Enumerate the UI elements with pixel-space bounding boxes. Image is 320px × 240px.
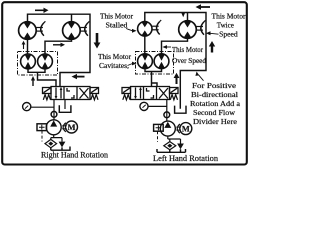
svg-text:This Motor: This Motor	[100, 12, 133, 21]
shaft of motor M1	[36, 21, 45, 36]
svg-text:This Motor: This Motor	[212, 12, 246, 21]
small down tick on wire	[181, 13, 185, 17]
shaft of motor M2	[80, 21, 89, 36]
pump P1	[46, 120, 61, 135]
wire M2 top stub	[71, 14, 73, 22]
flow divider FD2 right element	[154, 54, 169, 69]
wire M1 bottom to divider	[27, 39, 29, 54]
leader to M4 wire	[210, 32, 219, 35]
svg-text:Second Flow: Second Flow	[193, 108, 236, 117]
svg-text:Bi-directional: Bi-directional	[191, 90, 238, 99]
electric motor E1	[66, 121, 78, 133]
svg-text:Rotation Add a: Rotation Add a	[190, 99, 241, 108]
bold down arrow beside x90 wire	[94, 33, 101, 49]
label: This Motor Cavitates	[98, 52, 131, 70]
junction ball B2	[164, 112, 170, 118]
svg-text:Twice: Twice	[217, 21, 235, 30]
leader up to junction	[199, 75, 204, 81]
wire FD1 bottom bus	[28, 69, 45, 73]
shaft pump P2 to motor E2	[177, 124, 180, 133]
svg-text:Right Hand Rotation: Right Hand Rotation	[41, 151, 108, 160]
flow divider FD2 left element	[138, 54, 153, 69]
flow divider FD1 right element	[38, 54, 53, 69]
wire M4 top stub	[187, 13, 189, 22]
pump P2	[160, 121, 175, 136]
leader to M3	[126, 29, 133, 31]
valve V1 right solenoid	[90, 88, 99, 94]
valve V1 left solenoid	[43, 88, 52, 94]
svg-text:Cavitates,: Cavitates,	[99, 61, 129, 70]
valve V2 right solenoid	[170, 88, 179, 94]
bold up arrow right of M4	[209, 41, 215, 53]
heat exchanger H2	[154, 124, 164, 131]
svg-text:Over Speed: Over Speed	[172, 56, 206, 65]
label: This Motor Stalled	[100, 12, 133, 30]
valve V2 crossed arrows	[159, 88, 168, 99]
valve V2 center blocked ports	[147, 88, 154, 98]
wire FD1 supply to valve V1	[38, 72, 57, 86]
wire gauge G2 to riser	[148, 105, 167, 107]
wire M3 bottom to FD2 left circle	[144, 36, 146, 54]
svg-text:This Motor: This Motor	[98, 52, 131, 61]
gauge G2	[140, 102, 148, 110]
label: This Motor Over Speed	[172, 45, 206, 65]
up arrow below FD1	[31, 76, 35, 86]
wire middle top bus M3-M4	[145, 13, 206, 109]
flow divider FD2 enclosure (dash-dot)	[136, 52, 174, 75]
flow arrow right on top bus	[35, 8, 49, 13]
label: For Positive block	[190, 81, 241, 126]
valve V2 right spring	[170, 95, 177, 100]
filter F2	[164, 142, 176, 150]
wire top bus left group	[28, 14, 91, 86]
wire gauge G1 to riser	[30, 106, 54, 108]
valve V1 right spring	[91, 95, 98, 100]
valve V2 left solenoid	[122, 88, 131, 94]
up arrow right side near x180 wire	[174, 73, 180, 84]
small up arrow beside M1 bottom wire	[22, 41, 26, 49]
valve V1 left spring	[43, 95, 50, 100]
bold left arrow top right	[196, 4, 211, 9]
valve V1 center blocked ports	[67, 88, 74, 98]
wire FD2 bottom bus	[145, 69, 162, 72]
valve V2 body	[122, 87, 178, 100]
valve V1 crossed arrows	[80, 88, 89, 99]
wire pump P1 suction	[51, 135, 62, 142]
gauge G1	[23, 103, 31, 111]
tank T1	[59, 105, 71, 112]
label: This Motor Twice Speed	[212, 12, 246, 39]
bold left arrow on return line	[72, 74, 85, 79]
valve V2 envelope arrows	[135, 88, 137, 99]
tank bus under P2	[157, 149, 186, 152]
valve V1 body	[43, 87, 99, 100]
tank T2	[175, 106, 186, 114]
check valve arrow 2	[177, 144, 184, 150]
svg-text:This Motor: This Motor	[172, 45, 203, 54]
wire valve V1 to pump P1 riser	[53, 100, 55, 121]
heat exchanger H1	[37, 124, 47, 131]
junction ball B1	[51, 111, 57, 117]
leader to wire	[167, 46, 172, 48]
motor M2	[63, 22, 81, 40]
shaft pump P1 to motor E1	[63, 123, 66, 132]
svg-text:M: M	[182, 123, 190, 133]
svg-text:Speed: Speed	[219, 30, 238, 39]
motor M4	[179, 21, 197, 39]
flow divider FD1 left element	[21, 54, 36, 69]
valve V2 left spring	[123, 95, 130, 100]
drain dash from H1	[41, 131, 43, 142]
shaft of motor M3	[152, 20, 161, 35]
svg-text:M: M	[67, 122, 75, 132]
leader to FD2	[128, 64, 133, 66]
border frame	[2, 2, 247, 164]
wire valve V1 drain	[64, 100, 66, 110]
svg-text:Stalled: Stalled	[106, 21, 128, 30]
wire M2 bottom to divider right circle	[45, 39, 72, 54]
tank bus under P1	[51, 147, 70, 151]
electric motor E2	[180, 123, 192, 135]
motor M1	[19, 22, 37, 40]
wire valve V2 to pump P2 riser	[166, 100, 168, 122]
check valve arrow	[59, 142, 66, 148]
small right arrow under that wire	[53, 43, 65, 47]
wire M4 bottom to FD2 right circle	[162, 38, 188, 54]
valve V1 envelope arrows	[55, 88, 57, 99]
drain dash from H2	[157, 131, 159, 142]
svg-text:Divider Here: Divider Here	[193, 117, 238, 126]
svg-text:For Positive: For Positive	[192, 81, 237, 90]
flow divider FD1 enclosure (dash-dot)	[18, 52, 58, 76]
wire FD2 supply to valve V2	[152, 72, 158, 87]
wire pump P2 suction	[168, 136, 181, 143]
filter F1	[45, 139, 57, 147]
motor M3	[138, 22, 152, 36]
svg-text:Left Hand Rotation: Left Hand Rotation	[153, 154, 218, 163]
shaft of motor M4	[197, 20, 206, 35]
